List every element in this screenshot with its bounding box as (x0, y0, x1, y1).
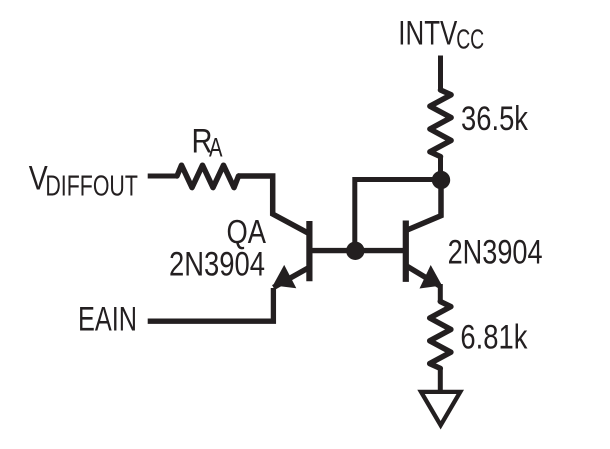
resistor 6.81k (430, 302, 451, 369)
svg-text:A: A (209, 133, 223, 163)
wire RA to collector QA (238, 176, 310, 234)
junction dot base node (346, 242, 364, 260)
wire VDIFFOUT to RA (148, 174, 178, 179)
transistor QA emitter (273, 265, 309, 288)
wire collector feedback loop (355, 180, 441, 252)
resistor RA (177, 165, 239, 187)
ground (421, 392, 460, 425)
svg-text:2N3904: 2N3904 (448, 234, 543, 272)
label RA (192, 122, 223, 162)
wire 6.81k to ground (438, 368, 443, 390)
wire base rail (309, 248, 406, 253)
wire collector Q2 (406, 180, 441, 231)
resistor 36.5k (430, 90, 451, 157)
svg-text:36.5k: 36.5k (461, 100, 529, 138)
wire EAIN to emitter QA (148, 288, 274, 321)
junction dot collector node (432, 171, 450, 189)
svg-text:DIFFOUT: DIFFOUT (45, 170, 138, 202)
svg-text:2N3904: 2N3904 (169, 246, 265, 284)
node VDIFFOUT label (29, 159, 138, 202)
transistor Q2 emitter (406, 265, 442, 302)
svg-text:CC: CC (456, 23, 484, 54)
node INTVCC label (398, 14, 484, 54)
wire INTVCC lead (438, 56, 443, 92)
svg-text:INTV: INTV (398, 14, 457, 52)
wire resistor 36.5k to node dot (438, 156, 443, 180)
transistor Q2 base bar (403, 221, 409, 282)
svg-text:6.81k: 6.81k (460, 319, 528, 357)
svg-text:EAIN: EAIN (78, 301, 137, 339)
transistor QA base bar (306, 221, 312, 281)
